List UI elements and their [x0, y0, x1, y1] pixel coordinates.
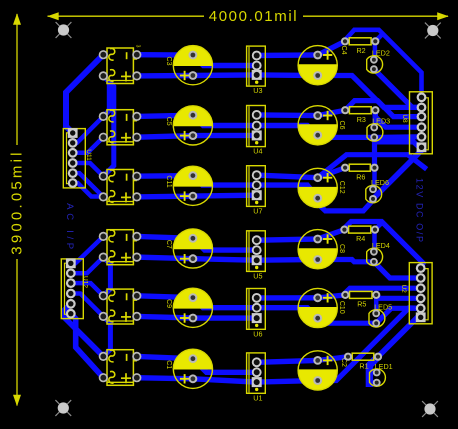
LED LED2 — [367, 49, 390, 74]
wire U11 pin3 to bridge U10 — [73, 137, 104, 153]
bridge rectifier U15 — [99, 289, 142, 324]
wire U12 pin4 to bridge U15 — [71, 294, 104, 317]
svg-text:LED1: LED1 — [375, 362, 393, 371]
wire LED1 cathode stub — [370, 380, 377, 385]
wire R1 to U2 square pad — [378, 317, 421, 356]
wire C4 minus to U8 pin2 — [318, 76, 422, 108]
capacitor C12 — [298, 168, 345, 207]
wire row6 AC+ rail bridge to cap — [137, 356, 193, 358]
wire row4 bottom rail — [137, 257, 318, 260]
capacitor C9 — [165, 288, 212, 327]
wire C12 plus to R6 — [318, 168, 345, 178]
wire row6 cap jog to header mid — [193, 359, 257, 373]
wire R6 to LED6 — [372, 168, 377, 190]
wire R3 to LED3 — [373, 110, 378, 127]
wire C2 plus to R1 — [318, 357, 348, 361]
svg-text:12V DC O/P: 12V DC O/P — [415, 178, 425, 244]
wire U11 pin2 to bridge U10 — [73, 116, 104, 142]
capacitor C1 — [165, 349, 212, 388]
wire row5 header to right cap — [257, 295, 318, 301]
wire C10 plus to R5 — [318, 295, 346, 298]
wire row3 header to right cap — [257, 175, 318, 178]
svg-text:U7: U7 — [253, 206, 262, 215]
svg-text:3900.05mil: 3900.05mil — [8, 149, 25, 254]
wire R6 up to U8 pin6 — [375, 142, 422, 168]
wire row1 AC+ rail bridge to cap — [137, 52, 193, 58]
wire row2 bottom rail — [137, 135, 257, 137]
svg-text:LED6: LED6 — [371, 178, 389, 187]
wire bridge U9 to bridge U10 chain — [103, 76, 109, 117]
header U1 — [247, 353, 266, 402]
wire U11 pin6 to bridge U13 — [73, 183, 104, 197]
wire row5 cap jog to header mid — [193, 298, 257, 308]
mounting hole MH2 — [425, 23, 441, 39]
wire U12 pin3 to bridge U15 — [71, 283, 104, 296]
wire row1 header to right cap — [257, 52, 318, 58]
capacitor C4 — [298, 46, 347, 85]
svg-text:C4: C4 — [340, 46, 347, 55]
wire C2 minus diagonal to U2 pin5 — [318, 308, 421, 381]
header U3 — [247, 46, 266, 95]
wire row1 cap jog to header mid — [193, 55, 257, 66]
capacitor C10 — [298, 288, 345, 327]
svg-text:U12: U12 — [82, 276, 89, 288]
wire row2 header mid to right cap minus — [257, 126, 318, 135]
wire U12 pin2 to bridge U14 — [71, 257, 104, 273]
wire bridge U10 to bridge U13 chain — [103, 76, 114, 176]
wire row2 AC+ rail bridge to cap — [137, 115, 193, 116]
capacitor C7 — [165, 229, 212, 268]
svg-text:LED4: LED4 — [372, 241, 390, 250]
capacitor C11 — [165, 166, 212, 205]
resistor R4 — [340, 226, 379, 244]
wire row2 cap jog to header mid — [193, 115, 257, 125]
svg-text:C1: C1 — [165, 360, 172, 369]
svg-text:3: 3 — [135, 45, 141, 48]
svg-text:LED5: LED5 — [374, 303, 392, 312]
wire R2 arch to U8 pin1 — [345, 30, 422, 98]
wire R1 to LED1 bar — [369, 358, 377, 387]
svg-text:C12: C12 — [338, 181, 345, 194]
bridge rectifier U13 — [99, 170, 142, 205]
wire row5 AC+ rail bridge to cap — [137, 296, 193, 298]
LED LED4 — [367, 241, 390, 266]
capacitor C6 — [298, 106, 345, 145]
resistor R2 — [341, 37, 380, 55]
wire U12 pin1 to bridge U14 — [71, 236, 104, 263]
svg-text:U11: U11 — [85, 149, 92, 161]
resistor R6 — [341, 164, 379, 182]
connector U11 — [63, 128, 92, 188]
svg-text:R3: R3 — [357, 115, 366, 124]
dimension line horizontal 4000.01mil — [47, 8, 449, 25]
wire U12 pin6 loop to bridge U16 — [71, 314, 104, 378]
wire C10 minus to LED5 — [317, 318, 376, 323]
svg-text:U5: U5 — [253, 271, 262, 280]
capacitor C5 — [165, 106, 212, 145]
LED LED3 — [367, 117, 390, 142]
connector U2 — [400, 263, 432, 324]
svg-text:U8: U8 — [401, 114, 408, 123]
wire C12 minus to LED6 — [318, 198, 373, 211]
wire C8 plus to R4 — [318, 230, 345, 239]
wire R4 to LED4 — [372, 230, 377, 252]
wire row6 header to right cap — [257, 360, 318, 362]
wire row4 AC+ rail bridge to cap — [137, 236, 193, 238]
wire row4 cap jog to header mid — [193, 238, 257, 250]
wire C6 minus LED3 cathode to U8 pin5 — [322, 134, 422, 140]
wire C6 plus to R3 — [318, 110, 346, 115]
LED LED5 — [369, 303, 392, 328]
wire R5 arch to U2 pin3 — [345, 288, 420, 295]
header U7 — [247, 166, 266, 216]
wire C8 minus to LED4 — [318, 260, 374, 262]
svg-text:R1: R1 — [359, 361, 368, 370]
svg-text:R2: R2 — [356, 46, 365, 55]
wire LED6 cathode to U8 square pad — [373, 147, 422, 199]
svg-text:R6: R6 — [356, 172, 365, 181]
mounting hole MH1 — [56, 22, 72, 38]
resistor R5 — [341, 291, 380, 309]
wire U11 pin1 loop to bridge U9 — [66, 55, 103, 133]
capacitor C2 — [298, 351, 347, 390]
connector U12 — [61, 258, 88, 318]
wire row4 header to right cap — [257, 239, 318, 240]
svg-text:C3: C3 — [165, 57, 172, 66]
wire R2 right stub — [375, 34, 382, 41]
wire row3 bottom rail — [137, 195, 257, 197]
wire row6 bottom rail — [137, 378, 318, 382]
bridge rectifier U10 — [99, 110, 142, 145]
bridge rectifier U9 — [99, 45, 142, 84]
wire row3 AC+ rail bridge to cap — [137, 173, 193, 179]
wire row1 bottom rail — [137, 75, 318, 76]
wire C12 plus rail to right edge — [318, 155, 425, 178]
svg-text:C9: C9 — [165, 299, 172, 308]
header U4 — [247, 106, 266, 156]
svg-text:AC I/P: AC I/P — [64, 203, 75, 253]
LED LED6 — [366, 178, 389, 203]
wire U12 pin5 loop to bridge U16 — [65, 304, 103, 357]
dimension line vertical 3900.05mil — [8, 13, 25, 406]
header U5 — [247, 231, 266, 281]
connector U8 — [401, 92, 432, 154]
svg-text:U3: U3 — [253, 86, 262, 95]
wire LED5 cathode to U2 pin5 — [376, 308, 421, 323]
svg-text:C11: C11 — [165, 175, 172, 187]
bridge rectifier U16 — [99, 350, 142, 386]
wire R5 to LED5 — [374, 295, 379, 314]
svg-text:U4: U4 — [253, 147, 262, 156]
wire row2 header to right cap — [257, 112, 318, 118]
mounting hole MH4 — [422, 401, 438, 417]
LED LED1 — [370, 362, 393, 387]
svg-text:C10: C10 — [338, 301, 345, 314]
svg-text:LED3: LED3 — [372, 117, 390, 126]
wire LED4 cathode to U2 pin2 — [374, 262, 421, 278]
wire R3 arch to U8 pin3 — [345, 101, 421, 117]
svg-text:C7: C7 — [165, 240, 172, 249]
svg-text:4000.01mil: 4000.01mil — [209, 8, 298, 25]
header U6 — [247, 289, 266, 339]
resistor R1 — [344, 353, 382, 371]
wire C4 plus to R2 — [318, 41, 345, 55]
wire row5 header mid to right cap minus — [257, 308, 318, 318]
wire bridge U15 to bridge U16 chain — [103, 316, 110, 356]
svg-text:U1: U1 — [253, 393, 262, 402]
svg-text:C5: C5 — [165, 117, 172, 126]
svg-text:R5: R5 — [357, 300, 366, 309]
resistor R3 — [341, 106, 379, 124]
svg-text:LED2: LED2 — [372, 49, 390, 58]
wire R5 right to U2 pin4 — [376, 295, 421, 298]
wire R3 right to U8 pin4 — [375, 110, 421, 127]
capacitor C3 — [165, 46, 212, 85]
svg-text:R4: R4 — [356, 234, 365, 243]
wire R4 right stub — [375, 222, 382, 229]
svg-text:U6: U6 — [253, 329, 262, 338]
wire R2 to LED2 — [373, 41, 378, 60]
wire U11 pin4 to bridge U13 — [73, 163, 104, 176]
wire bridge U14 to bridge U15 chain — [103, 257, 110, 296]
svg-text:U2: U2 — [400, 284, 407, 293]
wire LED2 cathode to U8 pin2 — [374, 69, 422, 107]
bridge rectifier U14 — [99, 230, 142, 265]
wire R4 arch to U2 pin1 — [344, 222, 423, 269]
wire row3 cap jog to header mid — [193, 176, 257, 186]
capacitor C8 — [298, 230, 345, 269]
svg-text:C8: C8 — [338, 244, 345, 253]
svg-text:C6: C6 — [338, 121, 345, 130]
mounting hole MH3 — [55, 400, 71, 416]
wire U11 pin5 to bridge U13 — [73, 173, 104, 197]
wire row5 bottom rail — [137, 316, 257, 318]
wire row3 header mid to right cap minus — [257, 185, 318, 198]
